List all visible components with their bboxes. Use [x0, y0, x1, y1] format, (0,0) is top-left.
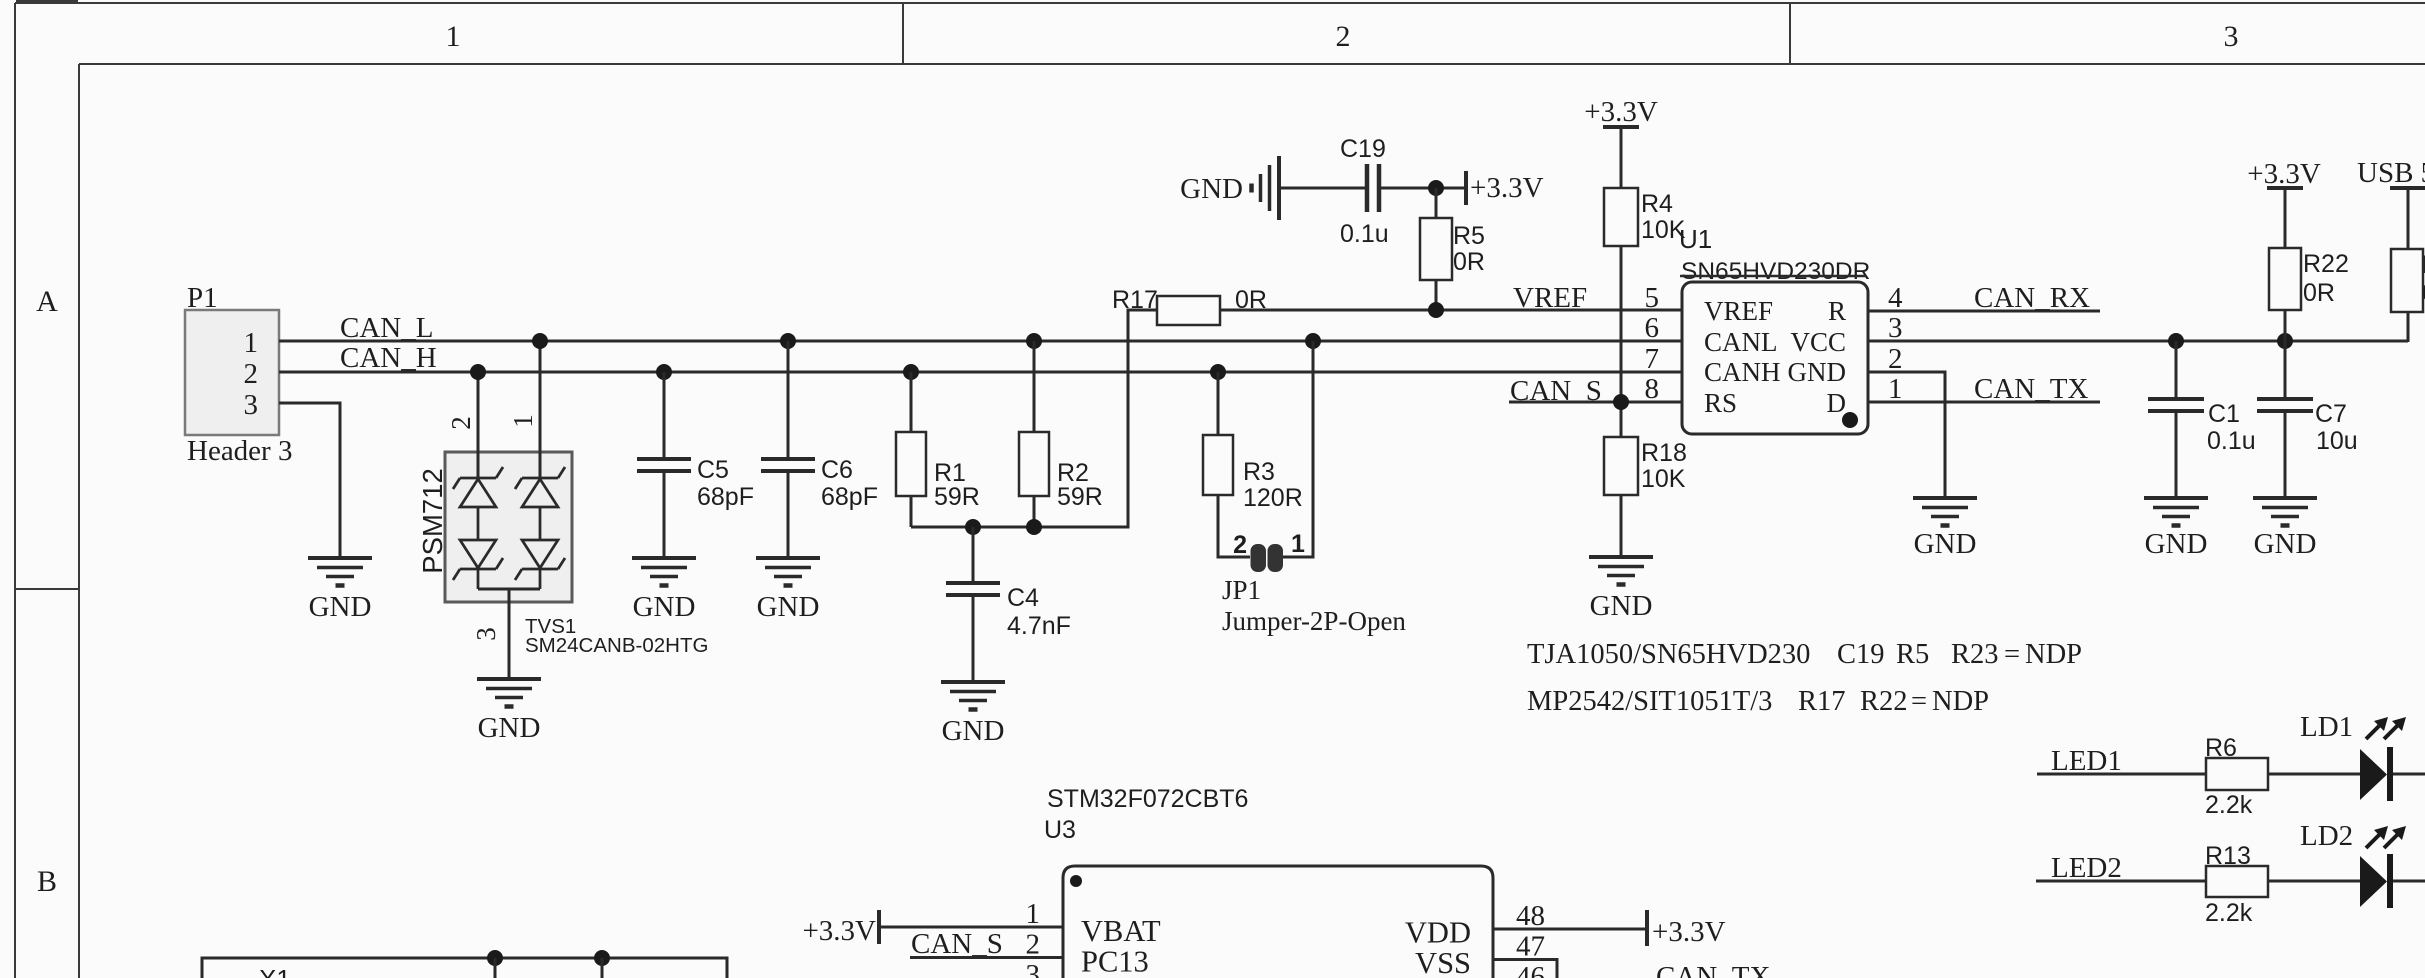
svg-text:6: 6 [1645, 312, 1660, 344]
U1 body [1682, 282, 1868, 434]
svg-text:+3.3V: +3.3V [802, 915, 876, 947]
svg-text:1: 1 [244, 327, 259, 359]
junction CAN_H / R1 [903, 364, 919, 380]
svg-text:59R: 59R [934, 483, 980, 511]
svg-text:3: 3 [1026, 959, 1041, 978]
resistor R22 [2269, 248, 2301, 310]
svg-text:GND: GND [1914, 528, 1977, 560]
svg-text:CAN_S: CAN_S [911, 928, 1003, 960]
svg-text:GND: GND [1590, 590, 1653, 622]
svg-text:3: 3 [2224, 20, 2239, 53]
svg-text:VBAT: VBAT [1081, 914, 1161, 948]
svg-text:2: 2 [446, 416, 476, 430]
wire R4 to CAN_S [1620, 246, 1623, 437]
wire TVS pin2 from CAN_H [477, 372, 480, 478]
svg-text:4.7nF: 4.7nF [1007, 612, 1071, 640]
svg-text:R4: R4 [1641, 190, 1673, 218]
resistor R13 [2206, 866, 2268, 897]
TVS diode pair left [453, 467, 503, 589]
svg-text:2: 2 [1888, 343, 1903, 375]
svg-text:0.1u: 0.1u [1340, 220, 1389, 248]
svg-text:GND: GND [309, 591, 372, 623]
wire P1 pin3 to ground [279, 403, 340, 556]
junction CAN_S / R4 / R18 [1613, 394, 1629, 410]
svg-text:CANH: CANH [1704, 357, 1781, 387]
svg-text:4: 4 [1888, 282, 1903, 314]
U3 body [1063, 866, 1493, 978]
junction R5 / VREF [1428, 302, 1444, 318]
wire R17 to VREF [1220, 309, 1682, 312]
svg-text:LD1: LD1 [2300, 711, 2353, 743]
svg-text:2: 2 [244, 358, 259, 390]
junction VCC / C1 [2168, 333, 2184, 349]
svg-text:10u: 10u [2316, 427, 2358, 455]
resistor R6 [2206, 758, 2268, 790]
svg-text:2.2k: 2.2k [2205, 899, 2253, 927]
wire R13 to LD2 [2268, 880, 2360, 883]
svg-text:C4: C4 [1007, 584, 1039, 612]
resistor R3 [1217, 372, 1220, 435]
svg-text:B: B [37, 865, 57, 898]
svg-text:0.1u: 0.1u [2207, 427, 2256, 455]
svg-text:0R: 0R [2303, 279, 2335, 307]
ground U1 pin2 [1913, 498, 1977, 526]
resistor R4 [1604, 188, 1638, 246]
junction CAN_L / TVS [532, 333, 548, 349]
resistor R5 [1435, 188, 1438, 218]
wire X1 stub b [601, 958, 604, 978]
wire U1 pin3 VCC [1868, 340, 2408, 343]
svg-text:7: 7 [1645, 343, 1660, 375]
svg-text:C19: C19 [1340, 135, 1386, 163]
wire R23 to VCC [2407, 312, 2410, 342]
svg-text:R22: R22 [2303, 250, 2349, 278]
resistor R1 [910, 372, 913, 432]
svg-text:68pF: 68pF [821, 483, 878, 511]
junction CAN_L / C6 [780, 333, 796, 349]
svg-text:R13: R13 [2205, 842, 2251, 870]
LED LD2 [2360, 856, 2387, 907]
svg-text:P1: P1 [187, 282, 218, 314]
svg-text:GND: GND [1180, 173, 1243, 205]
svg-text:VCC: VCC [1790, 327, 1846, 357]
svg-text:46: 46 [1516, 961, 1545, 978]
TVS1 body [445, 452, 572, 602]
TVS bottom rail [478, 588, 540, 591]
wire U3 pin47 to ground [1493, 960, 1557, 978]
svg-text:5: 5 [1645, 282, 1660, 314]
svg-text:3: 3 [1888, 312, 1903, 344]
U1 polarity dot [1842, 412, 1858, 428]
junction rail / R2 [1026, 519, 1042, 535]
wire X1 stub a [494, 958, 497, 978]
wire CAN_S [1509, 401, 1682, 404]
svg-text:D: D [1827, 388, 1847, 418]
wire LD1 out [2393, 773, 2425, 776]
svg-text:NDP: NDP [1932, 686, 1989, 717]
capacitor C5 [637, 372, 691, 556]
svg-text:USB 5: USB 5 [2357, 157, 2425, 189]
ground C6 [756, 558, 820, 586]
ground C5 [632, 558, 696, 586]
resistor R2 [1033, 341, 1036, 432]
junction C19 / R5 / +3.3V [1428, 180, 1444, 196]
svg-text:68pF: 68pF [697, 483, 754, 511]
resistor R23 (clipped at edge) [2391, 249, 2423, 312]
wire CAN_L to JP1 pin1 [1282, 341, 1313, 557]
junction CAN_H / TVS [470, 364, 486, 380]
svg-text:TJA1050/SN65HVD230: TJA1050/SN65HVD230 [1527, 639, 1810, 670]
svg-text:Header 3: Header 3 [187, 435, 292, 467]
svg-text:PSM712: PSM712 [417, 468, 448, 573]
svg-text:120R: 120R [1243, 484, 1303, 512]
svg-text:1: 1 [508, 414, 538, 428]
wire LD2 out [2393, 880, 2425, 883]
LD2 arrows [2366, 826, 2406, 848]
junction rail / C4 [965, 519, 981, 535]
jumper JP1 pads [1251, 544, 1267, 572]
ground TVS pin3 [477, 679, 541, 707]
capacitor C6 [761, 341, 815, 556]
svg-text:MP2542/SIT1051T/3: MP2542/SIT1051T/3 [1527, 686, 1772, 717]
svg-text:VSS: VSS [1415, 946, 1471, 978]
wire U1 pin4 CAN_RX [1868, 310, 2100, 313]
wire LED1 [2037, 773, 2206, 776]
svg-text:CAN_L: CAN_L [340, 312, 433, 344]
wire split-termination rail to R17 [911, 310, 1157, 527]
wire U3 pin2 [910, 956, 1063, 959]
svg-text:2: 2 [1336, 20, 1351, 53]
wire LED2 [2036, 880, 2206, 883]
svg-text:GND: GND [633, 591, 696, 623]
svg-text:CAN_H: CAN_H [340, 342, 437, 374]
svg-text:U3: U3 [1044, 816, 1076, 844]
wire U1 pin1 CAN_TX [1868, 401, 2100, 404]
svg-text:2: 2 [1233, 531, 1247, 559]
wire CAN_L bus [279, 340, 1682, 343]
svg-text:1: 1 [1888, 373, 1903, 405]
svg-text:C1: C1 [2208, 400, 2240, 428]
svg-text:R5: R5 [1896, 639, 1929, 670]
svg-text:VDD: VDD [1405, 916, 1471, 950]
junction CAN_H / C5 [656, 364, 672, 380]
ground C1 [2144, 498, 2208, 526]
capacitor C4 [946, 527, 1000, 680]
svg-text:X1: X1 [259, 964, 291, 978]
wire R6 to LD1 [2268, 773, 2360, 776]
U3 pin1 dot [1070, 875, 1082, 887]
junction CAN_L / JP1 [1305, 333, 1321, 349]
svg-text:CANL: CANL [1704, 327, 1778, 357]
capacitor C1 [2148, 341, 2204, 496]
junction CAN_H / R3 [1210, 364, 1226, 380]
crystal X1 body (clipped) [202, 958, 727, 978]
svg-text:2.2k: 2.2k [2205, 791, 2253, 819]
svg-text:=: = [2004, 639, 2020, 670]
svg-text:+3.3V: +3.3V [1470, 172, 1544, 204]
svg-text:=: = [1911, 686, 1927, 717]
svg-text:47: 47 [1516, 931, 1545, 963]
svg-text:3: 3 [471, 627, 501, 641]
svg-text:10K: 10K [1641, 465, 1686, 493]
svg-text:R18: R18 [1641, 439, 1687, 467]
LD1 arrows [2366, 717, 2406, 739]
wire R2 bottom [1033, 496, 1036, 527]
svg-text:8: 8 [1645, 373, 1660, 405]
svg-text:GND: GND [2145, 528, 2208, 560]
svg-text:VREF: VREF [1704, 296, 1773, 326]
ground P1 pin3 [308, 558, 372, 586]
capacitor C7 [2257, 341, 2313, 496]
wire R3 to JP1 pin2 [1218, 495, 1250, 557]
resistor R18 [1604, 437, 1638, 495]
svg-text:R17: R17 [1112, 286, 1158, 314]
junction X1 b [594, 950, 610, 966]
wire R5 to VREF [1435, 280, 1438, 310]
ground C7 [2253, 498, 2317, 526]
svg-text:VREF: VREF [1513, 282, 1587, 314]
wire TVS pin3 to ground [508, 589, 511, 677]
svg-text:2: 2 [1026, 929, 1041, 961]
svg-text:C19: C19 [1837, 639, 1885, 670]
svg-text:GND: GND [757, 591, 820, 623]
svg-text:LED1: LED1 [2051, 745, 2122, 777]
svg-text:GND: GND [478, 712, 541, 744]
svg-text:NDP: NDP [2025, 639, 2082, 670]
svg-text:1: 1 [446, 20, 461, 53]
ground power port at C19 (horizontal) [1252, 156, 1280, 220]
capacitor C19 [1281, 164, 1466, 212]
TVS diode pair right [515, 467, 565, 589]
svg-text:3: 3 [244, 389, 259, 421]
wire TVS pin1 from CAN_L [539, 341, 542, 478]
junction VCC / C7 / R22 [2277, 333, 2293, 349]
connector P1 body [185, 310, 279, 435]
wire R22 to VCC [2284, 310, 2287, 341]
svg-text:+3.3V: +3.3V [2247, 158, 2321, 190]
resistor R17 [1157, 296, 1220, 325]
svg-text:STM32F072CBT6: STM32F072CBT6 [1047, 785, 1248, 813]
wire R1 bottom [910, 496, 913, 527]
svg-text:Jumper-2P-Open: Jumper-2P-Open [1222, 606, 1406, 636]
svg-text:R6: R6 [2205, 734, 2237, 762]
svg-text:CAN_TX: CAN_TX [1974, 373, 2088, 405]
svg-text:RS: RS [1704, 388, 1737, 418]
svg-text:SM24CANB-02HTG: SM24CANB-02HTG [525, 634, 708, 657]
svg-text:LD2: LD2 [2300, 820, 2353, 852]
svg-text:GND: GND [942, 715, 1005, 747]
svg-text:LED2: LED2 [2051, 852, 2122, 884]
svg-text:59R: 59R [1057, 483, 1103, 511]
wire U3 pin1 [879, 926, 1063, 929]
svg-text:C7: C7 [2315, 400, 2347, 428]
svg-text:R17: R17 [1798, 686, 1846, 717]
ground R18 [1589, 557, 1653, 585]
power port +3.3V at C19 [1464, 171, 1468, 205]
svg-text:0R: 0R [1453, 248, 1485, 276]
svg-text:C6: C6 [821, 456, 853, 484]
svg-text:1: 1 [1026, 898, 1041, 930]
svg-text:GND: GND [1788, 357, 1847, 387]
svg-text:CAN_RX: CAN_RX [1974, 282, 2090, 314]
svg-text:CAN_TX: CAN_TX [1656, 961, 1770, 978]
LED LD1 [2360, 749, 2387, 800]
wire U3 pin48 [1493, 928, 1647, 931]
junction X1 a [487, 950, 503, 966]
svg-text:R3: R3 [1243, 458, 1275, 486]
svg-text:R5: R5 [1453, 222, 1485, 250]
svg-text:48: 48 [1516, 900, 1545, 932]
wire CAN_H bus [279, 371, 1682, 374]
svg-text:R23: R23 [1951, 639, 1999, 670]
svg-text:+3.3V: +3.3V [1584, 96, 1658, 128]
svg-text:PC13: PC13 [1081, 945, 1149, 978]
svg-text:+3.3V: +3.3V [1652, 916, 1726, 948]
wire U1 pin2 to ground [1868, 372, 1945, 496]
svg-text:A: A [36, 285, 58, 318]
svg-text:R: R [1828, 296, 1846, 326]
power port +3.3V at U3 pin48 [1645, 910, 1649, 946]
ground C4 [941, 682, 1005, 710]
junction CAN_L / R2 [1026, 333, 1042, 349]
svg-text:GND: GND [2254, 528, 2317, 560]
wire R18 to ground [1620, 495, 1623, 555]
svg-text:C5: C5 [697, 456, 729, 484]
svg-text:JP1: JP1 [1222, 575, 1261, 605]
svg-text:U1: U1 [1679, 224, 1712, 254]
svg-text:R22: R22 [1860, 686, 1908, 717]
svg-text:1: 1 [1291, 530, 1305, 558]
